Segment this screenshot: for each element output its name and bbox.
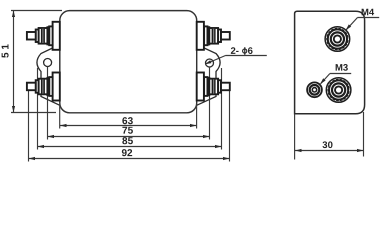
extension line from left hole center — [47, 67, 49, 140]
svg-text:6: 6 — [248, 46, 253, 57]
dimension 63 (body width) — [60, 116, 197, 127]
svg-text:75: 75 — [122, 126, 134, 137]
terminal T3 (top-right) — [197, 22, 230, 50]
terminal T2 (bottom-left) — [27, 73, 60, 101]
dimension 30 (side view width) — [295, 140, 364, 152]
dimension 92 (overall width) — [29, 148, 230, 160]
extension line from body left edge — [59, 104, 61, 129]
terminal T4 (bottom-right) — [197, 73, 230, 101]
extension line from left flange edge — [37, 68, 39, 150]
extension line from right flange edge — [221, 68, 223, 150]
svg-text:M3: M3 — [335, 63, 348, 74]
right flange hole — [206, 59, 214, 67]
svg-text:30: 30 — [322, 140, 333, 151]
svg-text:M4: M4 — [361, 7, 375, 18]
extension line from body right edge — [196, 104, 198, 129]
label 2-phi6 with leader to right hole — [205, 46, 267, 64]
svg-text:51: 51 — [1, 41, 12, 58]
dimension 75 (hole centres) — [48, 126, 210, 138]
extension line from left screw tip — [28, 91, 30, 162]
ground stud (side view) — [307, 82, 322, 97]
terminal T2 nut facet lines — [42, 79, 45, 93]
terminal T3 nut facet lines — [212, 29, 215, 43]
right mounting flange — [197, 45, 220, 106]
svg-text:2-: 2- — [230, 46, 238, 57]
svg-text:92: 92 — [121, 148, 133, 159]
left mounting flange — [37, 45, 60, 106]
dimension 51 (left height) — [1, 11, 62, 113]
terminal M4 (side view, top) — [325, 27, 350, 52]
terminal M3 (side view, bottom) — [326, 78, 351, 103]
terminal T1 (top-left): insulator plates, nut, washers, screw — [27, 22, 60, 50]
dimension 85 (flange width) — [38, 136, 222, 148]
extension line from panel left edge — [294, 114, 296, 160]
left flange hole — [44, 59, 52, 67]
extension line from panel right edge — [363, 112, 365, 157]
side view panel — [295, 11, 365, 114]
svg-text:85: 85 — [122, 136, 134, 147]
label M3 with leader — [320, 63, 351, 85]
filter body (front view) — [60, 11, 197, 113]
extension line from right screw tip — [229, 91, 231, 162]
label M4 with leader — [346, 7, 380, 30]
extension line from right hole center — [209, 67, 211, 140]
terminal T4 nut facet lines — [212, 79, 215, 93]
terminal T1 nut facet lines — [42, 29, 45, 43]
